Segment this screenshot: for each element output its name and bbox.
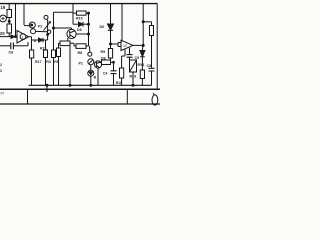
wire IC1 output down to R17	[31, 37, 33, 50]
meter M1 plus mark	[1, 17, 4, 20]
resistor R7	[102, 60, 111, 65]
wire junction down to R4 top	[45, 40, 47, 50]
wire IC2 lower leads	[124, 49, 126, 56]
node x88 mid	[88, 23, 90, 25]
diode D6 bar	[108, 29, 113, 31]
wire C8 right lead	[13, 45, 28, 47]
wire R5 bottom to bus	[53, 58, 55, 86]
wire R13 top lead	[151, 22, 153, 26]
resistor R4	[44, 50, 48, 58]
diode D3	[79, 22, 84, 27]
wire R4 bottom to bus	[45, 58, 47, 86]
svg-text:C8: C8	[147, 64, 152, 68]
svg-text:R17: R17	[35, 60, 42, 64]
svg-text:20: 20	[0, 31, 5, 36]
wire terminals to junction	[36, 30, 48, 32]
node x88 top	[88, 12, 90, 14]
relay RY1 coil	[130, 60, 137, 72]
potentiometer P1	[88, 59, 94, 65]
wire right border rail	[156, 4, 158, 89]
connector bottom right	[152, 95, 158, 105]
wire D5 left lead	[32, 39, 39, 41]
resistor R16	[140, 70, 144, 79]
wire supply drop x122	[121, 4, 123, 42]
transistor T1	[94, 61, 101, 68]
svg-text:R9: R9	[101, 50, 106, 54]
terminal circle upper	[29, 22, 35, 28]
wire emitter row left	[59, 42, 61, 44]
wire T2 collector	[76, 33, 88, 35]
node x88 collector	[88, 33, 90, 35]
resistor R11	[120, 68, 124, 78]
wire R7 right lead	[111, 61, 114, 63]
diode D6	[108, 24, 114, 30]
resistor R22	[60, 41, 70, 46]
wire R11 top lead	[121, 56, 123, 68]
resistor R19	[7, 10, 12, 18]
transistor T1 internals	[96, 62, 100, 68]
wire D9 bottom lead	[141, 57, 143, 64]
transistor T2	[67, 29, 76, 38]
diode D4 triangle	[89, 72, 93, 75]
capacitor C6 plates	[149, 68, 155, 71]
wire top rail stub to terminal	[24, 25, 29, 27]
connector bottom right mark	[153, 93, 154, 95]
wire to IC2 input	[111, 43, 119, 45]
wire R7 left lead	[100, 61, 102, 63]
meter M1	[0, 15, 6, 22]
svg-text:R5: R5	[54, 60, 59, 64]
wire R19 top lead	[8, 4, 10, 10]
svg-text:P2: P2	[38, 25, 42, 29]
wire D6 bottom lead	[110, 30, 112, 48]
svg-text:D6: D6	[100, 25, 105, 29]
wire D4 bottom to bus	[90, 76, 92, 85]
svg-text:C4: C4	[103, 71, 107, 75]
wire R16 bottom lead	[141, 79, 143, 86]
arrow input polarity	[11, 35, 15, 39]
terminal circle lower	[31, 29, 36, 34]
wire C10 bottom lead	[113, 74, 115, 86]
wire R8 left lead	[74, 45, 76, 47]
wire ground bus	[29, 84, 152, 86]
diode D3 bar	[82, 22, 84, 27]
wire C9 bottom lead	[129, 57, 131, 60]
wire rail to diode	[141, 45, 144, 50]
node pot junction	[47, 34, 49, 36]
svg-text:2: 2	[0, 63, 2, 67]
wire collector bus x88	[88, 13, 90, 46]
wire D3 left lead	[73, 23, 79, 25]
wire T1 emitter to bus	[97, 68, 99, 85]
resistor R10	[77, 11, 87, 15]
svg-text:P1: P1	[79, 62, 83, 66]
node x143 tap	[142, 21, 144, 23]
wire tap to R13	[143, 21, 151, 23]
wire R10 right lead	[86, 12, 89, 14]
wire relay bottom lead	[132, 72, 134, 85]
wire bus ground stub	[46, 85, 48, 92]
wire IC1 output	[29, 36, 32, 38]
node T1 bus	[90, 84, 92, 86]
terminal circle upper dot	[31, 24, 33, 26]
wire D3 right lead	[83, 23, 89, 25]
capacitor C9 plates	[127, 55, 133, 58]
transistor T2 internals	[70, 31, 75, 38]
potentiometer P2 top circle	[44, 15, 48, 19]
node bus junction	[46, 84, 48, 86]
resistor R6	[57, 48, 61, 57]
wire input line to IC1	[0, 36, 17, 38]
wire R19 bottom lead	[8, 18, 10, 25]
wire R8 drop	[73, 43, 75, 46]
wire emitter row right	[70, 42, 74, 44]
wire R9 bottom lead	[110, 58, 112, 62]
node input junction	[15, 36, 17, 38]
wire vertical from top rail at x24	[23, 4, 25, 25]
resistor R5	[52, 50, 56, 58]
op-amp IC1	[17, 31, 29, 44]
wire C6 bottom lead	[151, 71, 153, 85]
node IC2 output	[142, 44, 144, 46]
resistor R20	[7, 24, 12, 33]
diode D9	[140, 51, 145, 57]
resistor R9	[108, 49, 112, 59]
wire T2 emitter down	[67, 38, 69, 41]
resistor R17	[30, 50, 34, 58]
diode D5 bar	[42, 38, 44, 42]
potentiometer P2 wiper arrow	[44, 22, 51, 31]
wire down from emitter row x70	[69, 43, 71, 85]
svg-text:R11: R11	[116, 81, 122, 85]
terminal P1 wiper circle	[88, 52, 92, 56]
wire IC2 output	[133, 44, 143, 46]
node R19-R20 junction	[8, 20, 10, 22]
node bus junction x70	[69, 84, 71, 86]
op-amp IC2	[121, 40, 133, 50]
wire C10 top lead	[113, 62, 115, 71]
wire R8 right lead	[86, 45, 89, 47]
wire R20 bottom lead	[8, 33, 10, 37]
node IC2 input junction	[110, 43, 112, 45]
potentiometer P1 arrow	[89, 60, 93, 64]
svg-text:RY1: RY1	[138, 63, 145, 67]
resistor R13	[150, 26, 154, 36]
wire R11 bottom lead	[121, 78, 123, 85]
wire R11 jog to IC2	[122, 55, 125, 57]
wire D5 right lead	[43, 39, 48, 41]
wire top supply rail	[0, 3, 157, 5]
svg-text:D8: D8	[77, 28, 82, 32]
wire P1 to D4	[90, 65, 92, 70]
wire y12 feed	[54, 11, 74, 13]
wire C9 top lead	[129, 48, 131, 55]
node relay bus	[132, 84, 134, 86]
op-amp IC1 inner circle	[20, 34, 26, 40]
svg-text:D8: D8	[101, 56, 106, 60]
node y28 junction	[53, 27, 55, 29]
wire pot down to R4	[47, 32, 49, 40]
svg-text:07: 07	[1, 92, 5, 96]
wire lower frame line	[0, 103, 160, 105]
wire y28 node line	[53, 12, 55, 50]
wire left vertical branch	[15, 4, 17, 37]
svg-text:R8: R8	[78, 51, 83, 55]
wire R13 bottom lead	[151, 36, 153, 68]
svg-text:R4: R4	[46, 60, 51, 64]
wire R17 bottom to bus	[31, 58, 33, 85]
wire IC2 input split	[118, 43, 121, 47]
capacitor C8 plates	[11, 43, 14, 50]
wire output rail x143	[142, 4, 144, 45]
wire D6 top lead	[110, 4, 112, 24]
wire divider right	[126, 89, 128, 104]
wire C8 left lead	[0, 45, 11, 47]
wire to T2 base	[54, 27, 72, 29]
node R7 junction	[113, 61, 115, 63]
wire R6 bottom to bus	[58, 57, 60, 86]
wire T2 base lead	[71, 28, 73, 29]
diode D5	[39, 38, 44, 42]
diode D9 bar	[140, 56, 145, 58]
wire IC1 feedback vertical	[27, 42, 29, 46]
svg-text:3: 3	[0, 69, 2, 73]
capacitor C10 plates	[111, 71, 117, 74]
potentiometer P2 body	[47, 19, 49, 32]
relay RY1 diagonal	[130, 60, 137, 72]
wire R16 top lead	[141, 64, 143, 70]
wire R6 top lead	[58, 43, 60, 48]
wire supply drop x73	[72, 4, 74, 24]
node junction ring	[47, 30, 51, 34]
wire down to P1	[89, 46, 91, 52]
svg-text:19: 19	[1, 5, 6, 10]
svg-text:1: 1	[22, 35, 24, 39]
svg-text:1C: 1C	[123, 44, 128, 48]
wire R10 left lead	[73, 12, 77, 14]
wire divider left	[27, 89, 29, 104]
svg-text:C8: C8	[9, 51, 14, 55]
wire bottom ground rail	[0, 88, 160, 90]
svg-text:R10: R10	[76, 17, 83, 21]
resistor R8	[76, 44, 86, 49]
diode D4 circle	[88, 70, 94, 76]
